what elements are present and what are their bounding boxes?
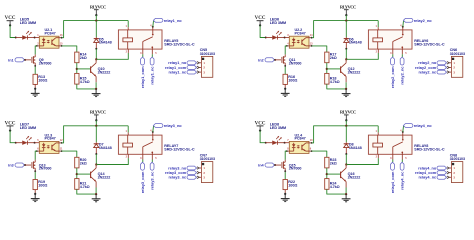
svg-text:RLYVCC: RLYVCC (340, 110, 356, 115)
svg-text:relay2_no: relay2_no (418, 61, 437, 65)
node relay2_nc to CN6.3 (437, 70, 447, 74)
svg-text:relay4_no: relay4_no (414, 124, 433, 128)
relay com pin (391, 49, 394, 54)
svg-text:PC847: PC847 (295, 137, 306, 141)
ground under R16 (283, 89, 287, 94)
wire R23 to R24 (325, 168, 329, 179)
svg-text:LED 3MM: LED 3MM (20, 126, 36, 130)
ground under R19 (33, 194, 37, 199)
node relay4_com vertical label (391, 160, 395, 163)
relay coil top pin to RLYVCC (126, 21, 130, 28)
wire collector node to relay coil (346, 53, 378, 59)
svg-text:relay2_com: relay2_com (415, 66, 437, 70)
junction base node (326, 68, 328, 70)
svg-text:relay1_com: relay1_com (140, 66, 145, 88)
connector CN8 pin 1 (449, 166, 452, 169)
svg-text:relay1_com: relay1_com (165, 66, 187, 70)
resistor R16 100 ohm (283, 74, 287, 84)
wire opto emitter to R23 (309, 149, 312, 152)
svg-text:2N2222: 2N2222 (98, 70, 111, 74)
svg-text:5: 5 (155, 52, 157, 55)
wire D7 anode to Q14 collector node (95, 154, 99, 165)
svg-text:2N7000: 2N7000 (39, 167, 52, 171)
svg-text:10: 10 (310, 139, 313, 142)
ground under Q10 (94, 89, 98, 94)
svg-text:11: 11 (60, 148, 63, 151)
connector CN7 pin 3 (199, 176, 202, 179)
svg-text:4.7kΩ: 4.7kΩ (330, 185, 340, 189)
svg-text:100Ω: 100Ω (38, 184, 47, 188)
node relay2_no top label (403, 18, 413, 22)
relay RELAY6 SRD-12VDC-SL-C (368, 30, 412, 49)
node relay3_com vertical label (141, 160, 145, 163)
svg-text:2kΩ: 2kΩ (330, 56, 337, 60)
svg-text:100Ω: 100Ω (38, 79, 47, 83)
node relay2_no to CN6.1 (437, 61, 446, 65)
node relay4_nc to CN8.3 (437, 175, 447, 179)
relay coil (123, 143, 133, 147)
svg-text:2: 2 (126, 50, 128, 53)
relay com pin (391, 154, 394, 159)
svg-text:3: 3 (140, 52, 142, 55)
relay coil (373, 143, 383, 147)
relay driver circuit 3 (5, 110, 215, 202)
wire base node to Q10 (77, 67, 90, 71)
wire Q9 source to R13 (33, 66, 37, 75)
svg-text:relay1_nc: relay1_nc (168, 71, 187, 75)
svg-text:4: 4 (150, 24, 152, 27)
svg-text:relay2_com: relay2_com (390, 66, 395, 88)
svg-text:relay4_com: relay4_com (390, 171, 395, 193)
junction emitter/ground (345, 88, 347, 90)
svg-text:RLYVCC: RLYVCC (340, 4, 356, 9)
relay switch contacts (391, 147, 394, 155)
svg-text:15: 15 (60, 42, 63, 45)
wire R15 to ground rail (77, 84, 96, 89)
node relay4_nc vertical label (400, 160, 404, 163)
svg-text:4: 4 (150, 130, 152, 133)
wire in4 to Q15 gate (275, 163, 281, 166)
junction collector node (345, 58, 347, 60)
svg-text:relay4_nc: relay4_nc (400, 171, 405, 190)
svg-text:relay3_nc: relay3_nc (168, 176, 187, 180)
svg-text:1N4148: 1N4148 (349, 146, 362, 150)
relay coil (123, 38, 133, 42)
svg-text:13: 13 (310, 42, 313, 45)
resistor R23 2k (325, 157, 329, 168)
svg-text:100Ω: 100Ω (288, 184, 297, 188)
node relay2_com vertical label (391, 54, 395, 57)
node relay2_nc vertical label (400, 54, 404, 57)
node relay1_nc vertical label (151, 54, 155, 57)
relay NO pin to label (151, 27, 154, 30)
relay RELAY5 SRD-12VDC-SL-C (118, 30, 162, 49)
relay NO pin to label (151, 132, 154, 135)
svg-text:relay1_no: relay1_no (164, 19, 183, 23)
node relay3_nc vertical label (151, 160, 155, 163)
relay NC pin (401, 154, 404, 159)
node relay3_no top label (153, 124, 163, 128)
node relay3_nc to CN7.3 (187, 175, 197, 179)
node relay1_no top label (153, 18, 163, 22)
svg-text:16: 16 (60, 34, 63, 37)
svg-text:PC847: PC847 (45, 137, 56, 141)
connector CN5 pin 3 (199, 70, 202, 73)
wire LED8 to optocoupler pin (285, 141, 290, 144)
junction base node (326, 173, 328, 175)
svg-text:4.7kΩ: 4.7kΩ (80, 80, 90, 84)
wire VCC to LED8 (260, 131, 266, 143)
svg-text:RLYVCC: RLYVCC (90, 110, 106, 115)
relay switch contacts (391, 42, 394, 50)
junction emitter/ground (345, 193, 347, 195)
relay coil top pin to RLYVCC (126, 126, 130, 133)
svg-text:LED 3MM: LED 3MM (20, 21, 36, 25)
wire D8 anode to Q16 collector node (344, 154, 348, 165)
connector CN5 pin 2 (199, 66, 202, 69)
svg-text:2N2222: 2N2222 (98, 176, 111, 180)
relay NO pin to label (401, 132, 404, 135)
relay coil top pin to RLYVCC (376, 21, 380, 28)
svg-text:SRD-12VDC-SL-C: SRD-12VDC-SL-C (414, 43, 445, 47)
node relay4_no to CN8.1 (437, 166, 446, 170)
svg-text:31001103: 31001103 (200, 157, 215, 161)
svg-text:relay3_com: relay3_com (140, 171, 145, 193)
connector CN7 pin 2 (199, 171, 202, 174)
wire collector node to relay coil (346, 158, 378, 164)
svg-text:relay2_no: relay2_no (414, 19, 433, 23)
wire R20 to R21 (75, 168, 79, 179)
node relay1_com to CN5.2 (187, 66, 196, 70)
junction base node (76, 173, 78, 175)
svg-text:2N7000: 2N7000 (289, 62, 302, 66)
wire Q13 source to R19 (33, 171, 37, 180)
wire LED5 to optocoupler pin (35, 36, 40, 39)
svg-text:2kΩ: 2kΩ (80, 161, 87, 165)
node relay3_com to CN7.2 (187, 171, 197, 175)
svg-text:5: 5 (405, 157, 407, 160)
resistor R18 4.7k (325, 73, 329, 84)
wire R21 to ground rail (77, 189, 96, 194)
wire in1 to Q9 gate (25, 58, 31, 61)
svg-text:in4: in4 (258, 164, 264, 168)
relay NC pin (401, 49, 404, 54)
svg-text:LED 3MM: LED 3MM (270, 21, 286, 25)
wire Q12 emitter to ground (344, 76, 347, 82)
relay driver circuit 4 (255, 110, 465, 202)
junction RLYVCC rail (95, 19, 97, 21)
svg-text:2kΩ: 2kΩ (80, 56, 87, 60)
resistor R17 2k (325, 52, 329, 63)
svg-text:relay2_nc: relay2_nc (400, 66, 405, 85)
svg-text:2: 2 (376, 50, 378, 53)
ground under R13 (33, 89, 37, 94)
svg-text:4: 4 (400, 24, 402, 27)
junction emitter/ground (95, 88, 97, 90)
svg-text:LED 3MM: LED 3MM (270, 126, 286, 130)
svg-text:relay3_no: relay3_no (164, 124, 183, 128)
junction emitter/ground (95, 193, 97, 195)
wire opto collector to RLYVCC rail (59, 36, 62, 39)
connector CN6 pin 2 (449, 66, 452, 69)
node relay1_com vertical label (141, 54, 145, 57)
resistor R19 100 ohm (33, 180, 37, 190)
relay com pin (141, 49, 144, 54)
svg-text:in3: in3 (8, 164, 14, 168)
svg-text:31001103: 31001103 (200, 52, 215, 56)
junction base node (76, 68, 78, 70)
wire Q14 emitter to ground (94, 182, 97, 188)
wire collector node to relay coil (96, 158, 128, 164)
relay driver circuit 2 (255, 4, 465, 96)
wire D5 anode to Q10 collector node (95, 49, 99, 60)
svg-text:4: 4 (400, 130, 402, 133)
svg-text:2: 2 (126, 156, 128, 159)
junction RLYVCC rail (95, 125, 97, 127)
svg-text:2N7000: 2N7000 (289, 167, 302, 171)
wire D6 anode to Q12 collector node (344, 49, 348, 60)
svg-text:in2: in2 (258, 58, 264, 62)
svg-text:4.7kΩ: 4.7kΩ (330, 80, 340, 84)
node relay1_no to CN5.1 (187, 61, 196, 65)
wire opto collector to RLYVCC rail (309, 36, 312, 39)
svg-text:relay3_com: relay3_com (165, 171, 187, 175)
wire base node to Q14 (77, 172, 90, 176)
relay coil top pin to RLYVCC (376, 126, 380, 133)
svg-text:1: 1 (376, 25, 378, 28)
junction collector node (95, 163, 97, 165)
resistor R13 100 ohm (33, 74, 37, 84)
svg-text:14: 14 (310, 34, 313, 37)
ground under Q12 (344, 89, 348, 94)
wire Q16 emitter to ground (344, 182, 347, 188)
wire Q11 source to R16 (283, 66, 287, 75)
node relay2_com to CN6.2 (437, 66, 446, 70)
junction RLYVCC rail (345, 19, 347, 21)
svg-text:SRD-12VDC-SL-C: SRD-12VDC-SL-C (164, 148, 195, 152)
svg-text:2: 2 (376, 156, 378, 159)
wire opto emitter to R20 (59, 149, 62, 152)
node relay1_nc to CN5.3 (187, 70, 197, 74)
ground under Q16 (344, 194, 348, 199)
wire LED7 to optocoupler pin (35, 141, 40, 144)
wire LED6 to optocoupler pin (285, 36, 290, 39)
svg-text:SRD-12VDC-SL-C: SRD-12VDC-SL-C (414, 148, 445, 152)
svg-text:relay2_nc: relay2_nc (418, 71, 437, 75)
svg-text:5: 5 (155, 157, 157, 160)
relay RELAY8 SRD-12VDC-SL-C (368, 135, 412, 154)
wire opto emitter to R17 (309, 44, 312, 47)
svg-text:1: 1 (126, 25, 128, 28)
wire VCC to LED6 (260, 25, 266, 37)
relay NC pin (151, 154, 154, 159)
wire R18 to ground rail (327, 84, 346, 89)
svg-text:1: 1 (126, 130, 128, 133)
resistor R24 4.7k (325, 179, 329, 190)
svg-text:PC847: PC847 (45, 32, 56, 36)
svg-text:100Ω: 100Ω (288, 79, 297, 83)
ground under Q14 (94, 194, 98, 199)
resistor R15 4.7k (75, 73, 79, 84)
node relay4_com to CN8.2 (437, 171, 447, 175)
resistor R21 4.7k (75, 179, 79, 190)
svg-text:relay1_no: relay1_no (168, 61, 187, 65)
wire base node to Q12 (327, 67, 340, 71)
svg-text:3: 3 (140, 157, 142, 160)
wire VCC to LED5 (10, 25, 16, 37)
relay driver circuit 1 (5, 4, 215, 96)
wire Q15 source to R22 (283, 171, 287, 180)
node relay3_no to CN7.1 (187, 166, 196, 170)
svg-text:relay4_no: relay4_no (418, 166, 437, 170)
svg-text:12: 12 (60, 139, 63, 142)
svg-text:in1: in1 (8, 58, 14, 62)
svg-text:9: 9 (310, 148, 312, 151)
relay com pin (141, 154, 144, 159)
svg-text:relay3_nc: relay3_nc (150, 171, 155, 190)
wire R24 to ground rail (327, 189, 346, 194)
svg-text:RLYVCC: RLYVCC (90, 4, 106, 9)
wire opto pin to Q15 drain (287, 149, 290, 152)
wire in3 to Q13 gate (25, 163, 31, 166)
relay switch contacts (141, 42, 144, 50)
svg-text:3: 3 (390, 157, 392, 160)
relay RELAY7 SRD-12VDC-SL-C (118, 135, 162, 154)
svg-text:PC847: PC847 (295, 32, 306, 36)
junction collector node (95, 58, 97, 60)
svg-text:5: 5 (405, 52, 407, 55)
node relay4_no top label (403, 124, 413, 128)
relay switch contacts (141, 147, 144, 155)
connector CN8 pin 3 (449, 176, 452, 179)
svg-text:31001103: 31001103 (450, 157, 465, 161)
junction RLYVCC rail (345, 125, 347, 127)
svg-text:1N4148: 1N4148 (99, 41, 112, 45)
svg-text:relay4_nc: relay4_nc (418, 176, 437, 180)
ground under R22 (283, 194, 287, 199)
wire Q10 emitter to ground (94, 76, 97, 82)
wire R14 to R15 (75, 63, 79, 74)
wire R17 to R18 (325, 63, 329, 74)
svg-text:1N4148: 1N4148 (99, 146, 112, 150)
svg-text:1: 1 (376, 130, 378, 133)
svg-text:2kΩ: 2kΩ (330, 161, 337, 165)
wire base node to Q16 (327, 172, 340, 176)
wire opto collector to RLYVCC rail (309, 141, 312, 144)
svg-text:relay3_no: relay3_no (168, 166, 187, 170)
svg-text:2N2222: 2N2222 (348, 176, 361, 180)
svg-text:1N4148: 1N4148 (349, 41, 362, 45)
wire opto pin to Q11 drain (287, 44, 290, 47)
svg-text:relay4_com: relay4_com (415, 171, 437, 175)
connector CN6 pin 3 (449, 70, 452, 73)
connector CN7 pin 1 (199, 166, 202, 169)
wire opto emitter to R14 (59, 44, 62, 47)
resistor R22 100 ohm (283, 180, 287, 190)
wire in2 to Q11 gate (275, 58, 281, 61)
svg-text:31001103: 31001103 (450, 52, 465, 56)
connector CN5 pin 1 (199, 61, 202, 64)
svg-text:SRD-12VDC-SL-C: SRD-12VDC-SL-C (164, 43, 195, 47)
relay coil (373, 38, 383, 42)
wire collector node to relay coil (96, 53, 128, 59)
wire opto pin to Q9 drain (37, 44, 40, 47)
resistor R20 2k (75, 157, 79, 168)
relay NC pin (151, 49, 154, 54)
resistor R14 2k (75, 52, 79, 63)
svg-text:3: 3 (390, 52, 392, 55)
wire opto pin to Q13 drain (37, 149, 40, 152)
relay NO pin to label (401, 27, 404, 30)
wire opto collector to RLYVCC rail (59, 141, 62, 144)
svg-text:4.7kΩ: 4.7kΩ (80, 185, 90, 189)
svg-text:2N2222: 2N2222 (348, 70, 361, 74)
svg-text:2N7000: 2N7000 (39, 62, 52, 66)
wire VCC to LED7 (10, 131, 16, 143)
svg-text:relay1_nc: relay1_nc (150, 66, 155, 85)
connector CN6 pin 1 (449, 61, 452, 64)
connector CN8 pin 2 (449, 171, 452, 174)
junction collector node (345, 163, 347, 165)
